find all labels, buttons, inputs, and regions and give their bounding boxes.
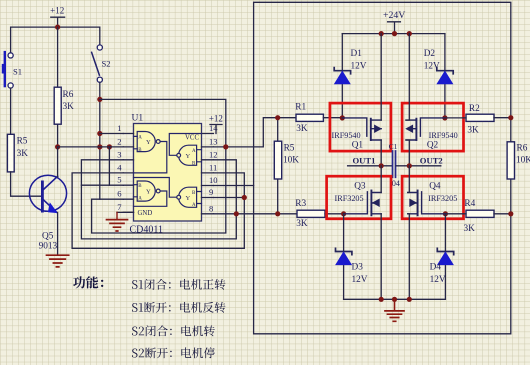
junction R6/pin2 [55, 144, 60, 149]
wire R2 right [494, 117, 511, 119]
svg-text:10: 10 [209, 175, 218, 185]
svg-text:D1: D1 [351, 49, 363, 59]
svg-text:10K: 10K [283, 155, 299, 165]
wire ground line [344, 298, 446, 300]
NAND gate B inside U1 (mirrored) [177, 145, 202, 165]
svg-text:+24V: +24V [383, 10, 405, 21]
ground below Q5 [47, 255, 69, 267]
svg-text:A: A [138, 196, 142, 201]
svg-text:3K: 3K [63, 102, 75, 112]
junction R2/right rail [508, 115, 513, 120]
svg-text:1: 1 [117, 123, 121, 133]
svg-text:10K: 10K [516, 155, 530, 165]
resistor R5 3K [7, 134, 14, 172]
svg-text:Y: Y [186, 195, 191, 202]
ground at pin7 [117, 211, 134, 213]
svg-text:OUT2: OUT2 [420, 156, 443, 166]
svg-text:Q2: Q2 [427, 141, 439, 151]
svg-text:R5: R5 [17, 137, 28, 147]
svg-text:GND: GND [138, 210, 153, 217]
NAND gate C inside U1 [134, 181, 161, 201]
NAND gate A inside U1 [134, 132, 161, 152]
svg-text:CD4011: CD4011 [130, 225, 164, 236]
svg-text:8: 8 [209, 203, 213, 213]
wire pin13 line to R1 [213, 118, 296, 147]
resistor R2 3K [466, 114, 494, 121]
svg-text:9: 9 [209, 187, 213, 197]
svg-text:3K: 3K [296, 124, 308, 134]
wire pin9 line [213, 197, 244, 199]
svg-text:Q5: Q5 [42, 231, 54, 241]
wire D4 column [444, 214, 446, 299]
svg-text:A: A [192, 149, 196, 154]
switch S2 [92, 45, 103, 82]
wire D1 column [341, 34, 343, 118]
wire S1 to R5 [10, 88, 12, 134]
wire S2 vertical to pin6 line [99, 82, 101, 199]
junction +12/R6 [55, 25, 60, 30]
wire big loop rectangle [254, 2, 511, 334]
svg-text:R4: R4 [464, 199, 475, 209]
transistor Q2 IRF9540 red box [402, 103, 463, 151]
svg-text:12V: 12V [351, 61, 367, 71]
junction pin12-loop/R3 line [234, 211, 239, 216]
wire Q1 drain to OUT1 [380, 140, 382, 166]
node S1 closed caption [132, 279, 226, 290]
transistor Q4 mosfet symbol (mirrored) [408, 191, 446, 216]
resistor R6 3K [57, 27, 59, 147]
wire R2 to Q2 gate [445, 117, 466, 119]
svg-text:6: 6 [117, 189, 122, 199]
junction rail/+24V [392, 31, 397, 36]
svg-text:Y: Y [146, 139, 151, 146]
svg-text:D3: D3 [352, 263, 364, 273]
wire OUT1 [348, 165, 392, 167]
junction Q1 gate [340, 115, 345, 120]
svg-text:R5: R5 [284, 143, 295, 153]
svg-text:R2: R2 [469, 104, 480, 114]
svg-text:Y: Y [186, 153, 191, 160]
transistor Q3 IRF3205 red box [327, 176, 391, 219]
svg-text:Q1: Q1 [352, 141, 364, 151]
wire pin2-pin5 link [108, 147, 110, 185]
svg-text:C1: C1 [389, 142, 398, 151]
wire gate A output [134, 142, 167, 173]
wire R1 to Q1 gate [323, 117, 342, 119]
junction pin9/pin11 loop [242, 195, 247, 200]
ground symbol bottom center [392, 297, 397, 302]
svg-text:12V: 12V [430, 275, 446, 285]
svg-text:A: A [192, 203, 196, 208]
svg-text:3K: 3K [17, 149, 29, 159]
svg-text:3K: 3K [467, 126, 479, 136]
transistor Q3 mosfet symbol [344, 191, 382, 216]
svg-text:5: 5 [117, 175, 121, 185]
junction Q3 source/ground [379, 297, 384, 302]
wire pin10 line [213, 185, 253, 187]
power +12 top-left [51, 17, 65, 27]
wire Q3 source to ground line [380, 214, 382, 299]
wire R3 to Q3 gate [325, 213, 344, 215]
svg-text:3K: 3K [296, 219, 308, 229]
wire R4 to Q4 gate [445, 213, 466, 215]
junction OUT1 [379, 163, 384, 168]
power +24V [388, 22, 401, 34]
transistor Q2 mosfet symbol (mirrored) [406, 118, 445, 140]
junction S2/loop [97, 97, 102, 102]
wire pin5 line [81, 184, 123, 186]
svg-text:3K: 3K [464, 224, 476, 234]
svg-text:2: 2 [117, 136, 121, 146]
svg-text:A: A [138, 136, 142, 141]
resistor R6 10K (right) [507, 142, 514, 179]
wire D3 column [343, 214, 345, 299]
op-amp/IC U1 CD4011 body [134, 124, 202, 222]
resistor R1 3K [296, 114, 323, 121]
wire D2 column [444, 34, 446, 118]
junction pin2/pin5 link [107, 144, 112, 149]
wire pin4 loop under IC to pin11 [72, 173, 244, 248]
node 功能 caption [73, 276, 103, 288]
svg-text:R3: R3 [295, 199, 306, 209]
node S2 closed caption [132, 325, 215, 336]
svg-text:S2: S2 [102, 59, 111, 69]
transistor Q1 mosfet symbol [342, 118, 381, 140]
wire Q2 source to rail [406, 34, 409, 121]
diode D2 12V zener [437, 68, 453, 74]
diode D4 12V zener [437, 248, 453, 254]
svg-text:Q3: Q3 [354, 181, 366, 191]
svg-text:D2: D2 [424, 49, 436, 59]
wire gate C output [134, 191, 167, 206]
svg-text:12: 12 [209, 149, 218, 159]
transistor Q4 IRF3205 red box [402, 176, 463, 219]
wire Q1 source to rail [380, 34, 382, 121]
junction rail/Q2 source [407, 31, 412, 36]
svg-text:3: 3 [117, 149, 121, 159]
wire pin3 loop under IC to pin12 [81, 160, 236, 239]
node S1 open caption [132, 302, 226, 313]
wire gate D output [134, 178, 177, 198]
svg-text:R1: R1 [295, 102, 306, 112]
wire +12 rail [11, 27, 100, 53]
svg-text:+12: +12 [209, 114, 223, 124]
svg-text:R6: R6 [517, 143, 528, 153]
wire Q5 emitter down [57, 213, 59, 255]
wire +24V rail [342, 33, 445, 35]
diode D1 12V zener [334, 68, 350, 74]
wire R4 right [494, 213, 511, 215]
junction S2/pin2 [97, 144, 102, 149]
svg-text:12V: 12V [352, 275, 368, 285]
svg-text:Y: Y [146, 189, 151, 196]
resistor R4 3K [466, 210, 494, 217]
transistor Q1 IRF9540 red box [330, 103, 391, 151]
svg-text:OUT1: OUT1 [353, 156, 376, 166]
svg-text:7: 7 [117, 202, 122, 212]
diode D3 12V zener [336, 248, 352, 254]
wire pin8/R3 line [213, 213, 297, 215]
power +12 at pin14 [210, 125, 222, 134]
svg-text:+12: +12 [50, 5, 64, 15]
svg-text:D4: D4 [430, 263, 442, 273]
wire pin2 line [58, 146, 124, 148]
wire Q4 drain to OUT2 [408, 166, 410, 193]
pin stubs U1 right [202, 134, 214, 214]
junction R5/R3 line [275, 211, 280, 216]
junction pin13/loop [223, 144, 228, 149]
wire Q2 drain to OUT2 [406, 140, 409, 166]
svg-text:VCC: VCC [185, 135, 199, 142]
svg-text:Q4: Q4 [429, 181, 441, 191]
svg-text:9013: 9013 [39, 242, 58, 252]
svg-text:IRF3205: IRF3205 [335, 194, 364, 203]
NAND gate D inside U1 (mirrored) [177, 187, 202, 207]
svg-text:IRF9540: IRF9540 [429, 131, 458, 140]
wire pin1 line [100, 133, 124, 135]
switch S1 [8, 53, 13, 88]
svg-text:IRF9540: IRF9540 [332, 131, 361, 140]
junction OUT2 [407, 163, 412, 168]
svg-text:U1: U1 [132, 114, 144, 124]
svg-text:4: 4 [117, 162, 122, 172]
svg-text:11: 11 [209, 162, 217, 172]
wire gate B output [169, 134, 201, 156]
junction S2/pin1 [97, 131, 102, 136]
junction R4/right rail [508, 211, 513, 216]
svg-text:13: 13 [209, 136, 218, 146]
svg-text:12V: 12V [424, 61, 440, 71]
svg-text:04: 04 [392, 179, 400, 188]
junction Q4 source/ground [407, 297, 412, 302]
junction rail/Q1 source [379, 31, 384, 36]
node S2 open caption [132, 347, 215, 358]
resistor R5 10K (middle) [277, 118, 279, 214]
junction Q2 gate [442, 115, 447, 120]
junction Q4 gate [443, 211, 448, 216]
svg-text:S1: S1 [13, 66, 22, 76]
resistor R3 3K [297, 210, 325, 217]
junction Q3 gate [341, 211, 346, 216]
wire Q4 source to ground line [408, 214, 410, 299]
transistor Q5 9013 [29, 175, 66, 212]
svg-text:IRF3205: IRF3205 [428, 194, 457, 203]
svg-text:R6: R6 [63, 90, 74, 100]
wire R5 to Q5 base [11, 172, 41, 196]
wire pin6 loop under IC [92, 99, 226, 233]
capacitor C1 [393, 151, 396, 177]
wire Q3 drain to OUT1 [380, 166, 382, 193]
wire Q5 collector to pin2 line [57, 147, 59, 177]
wire OUT2 [396, 165, 441, 167]
pin stubs U1 left [123, 134, 133, 213]
junction R5/R1 line [275, 115, 280, 120]
